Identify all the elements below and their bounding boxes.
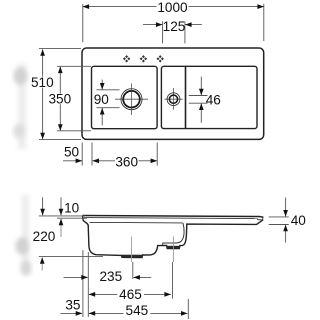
svg-text:350: 350 bbox=[48, 92, 71, 107]
svg-text:220: 220 bbox=[33, 229, 56, 244]
svg-text:360: 360 bbox=[115, 154, 138, 169]
svg-text:35: 35 bbox=[65, 298, 80, 313]
svg-text:50: 50 bbox=[64, 145, 80, 160]
svg-text:545: 545 bbox=[126, 303, 149, 318]
svg-text:40: 40 bbox=[291, 213, 307, 228]
svg-text:235: 235 bbox=[99, 269, 122, 284]
svg-text:465: 465 bbox=[119, 287, 142, 302]
svg-text:46: 46 bbox=[206, 93, 221, 108]
svg-text:90: 90 bbox=[94, 92, 110, 107]
svg-text:510: 510 bbox=[31, 75, 54, 90]
svg-text:125: 125 bbox=[163, 19, 186, 34]
svg-text:1000: 1000 bbox=[157, 0, 188, 15]
svg-text:10: 10 bbox=[64, 200, 80, 215]
